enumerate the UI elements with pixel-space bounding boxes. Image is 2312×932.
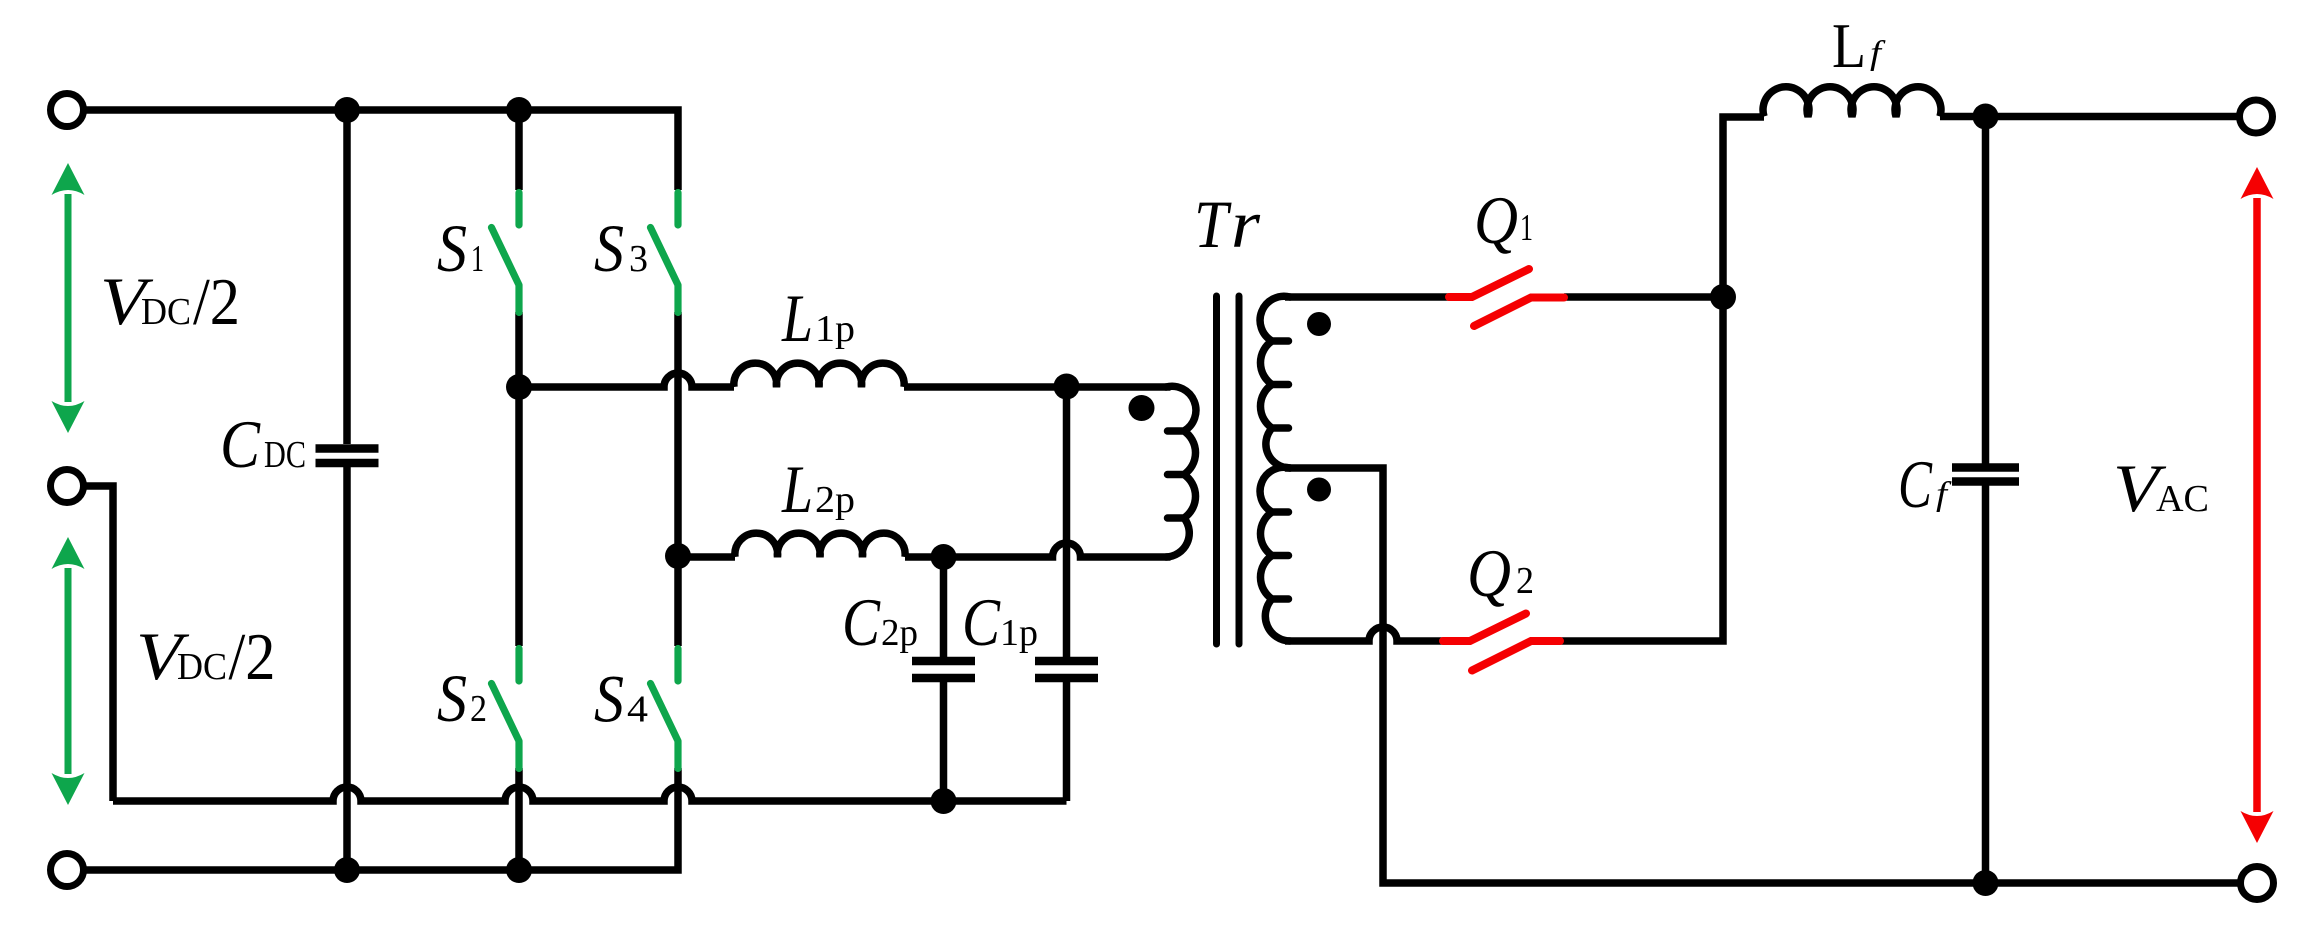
wire Lf to AC+ terminal bbox=[1940, 113, 2240, 121]
terminal DC- bbox=[51, 854, 84, 887]
wire top DC+ rail bbox=[80, 110, 678, 190]
svg-text:S: S bbox=[437, 210, 467, 286]
transformer Tr primary winding bbox=[1166, 386, 1196, 557]
svg-text:f: f bbox=[1936, 476, 1952, 513]
capacitor C1p top lead bbox=[1063, 387, 1071, 658]
wire DC midpoint link bbox=[80, 486, 113, 801]
label S2 bbox=[437, 660, 487, 736]
inductor Lf bbox=[1763, 87, 1941, 117]
transformer Tr secondary winding 2 bbox=[1260, 467, 1290, 641]
transformer Tr core bars bbox=[1217, 296, 1240, 644]
svg-text:2: 2 bbox=[1516, 560, 1534, 602]
svg-text:C: C bbox=[842, 584, 881, 660]
svg-text:3: 3 bbox=[629, 238, 648, 280]
svg-text:L: L bbox=[1832, 10, 1866, 81]
svg-text:DC: DC bbox=[177, 646, 227, 688]
transformer polarity dot secondary1 bbox=[1307, 312, 1331, 336]
svg-text:DC: DC bbox=[141, 291, 191, 333]
terminal DC+ bbox=[51, 94, 84, 127]
switch S2 bbox=[492, 649, 520, 769]
capacitor Cf bottom lead bbox=[1982, 486, 1990, 884]
label Tr bbox=[1194, 186, 1261, 262]
inductor L2p bbox=[735, 533, 905, 557]
capacitor C2p bottom lead bbox=[940, 682, 948, 801]
terminal AC- bbox=[2241, 867, 2274, 900]
label Q2 bbox=[1467, 535, 1534, 611]
switch S3 bbox=[651, 193, 679, 313]
svg-text:S: S bbox=[594, 661, 624, 737]
wire secondary2 to Q2 with hop over midtap bbox=[1285, 627, 1443, 641]
wire S1 leg upper bbox=[515, 110, 523, 190]
capacitor C1p bottom lead bbox=[1063, 682, 1071, 801]
label S4 bbox=[594, 661, 648, 737]
wire S3 leg lower to node B bbox=[674, 312, 682, 556]
capacitor C2p plates bbox=[912, 661, 975, 678]
label Lf bbox=[1832, 10, 1886, 81]
label S3 bbox=[594, 210, 648, 286]
wire Q2 to right riser bbox=[1560, 297, 1723, 641]
capacitor CDC plates bbox=[316, 449, 379, 464]
label VDC/2 bottom bbox=[136, 618, 276, 694]
capacitor CDC top lead bbox=[343, 110, 351, 444]
arrow VDC/2 top green bbox=[52, 163, 85, 433]
svg-text:1: 1 bbox=[1520, 207, 1533, 249]
capacitor C2p top lead bbox=[940, 557, 948, 658]
wire S2 leg upper bbox=[515, 387, 523, 646]
inductor L1p bbox=[734, 363, 904, 387]
svg-text:AC: AC bbox=[2156, 478, 2209, 520]
svg-text:4: 4 bbox=[627, 689, 648, 731]
label L2p bbox=[781, 451, 855, 527]
capacitor Cf plates bbox=[1952, 468, 2019, 482]
transformer polarity dot primary bbox=[1129, 395, 1155, 421]
switch Q1 blades bbox=[1449, 269, 1564, 326]
svg-text:S: S bbox=[437, 660, 467, 736]
svg-text:C: C bbox=[962, 584, 1001, 660]
wire node A to L1p with hop over S3 leg bbox=[519, 373, 734, 387]
label VAC bbox=[2113, 450, 2209, 526]
svg-text:1: 1 bbox=[471, 238, 484, 280]
label S1 bbox=[437, 210, 484, 286]
wire node C up to Lf bbox=[1723, 117, 1764, 297]
svg-text:T: T bbox=[1194, 186, 1232, 262]
switch Q2 blades bbox=[1443, 614, 1560, 671]
svg-text:C: C bbox=[1898, 446, 1932, 522]
switch S1 bbox=[492, 193, 520, 313]
svg-text:2p: 2p bbox=[881, 612, 918, 654]
capacitor Cf top lead bbox=[1982, 117, 1990, 464]
wire L1p to primary top bbox=[904, 383, 1171, 391]
label Q1 bbox=[1474, 182, 1533, 258]
svg-text:/2: /2 bbox=[229, 620, 276, 694]
wire bottom-left DC- rail bbox=[80, 768, 678, 870]
svg-text:L: L bbox=[781, 280, 813, 356]
svg-text:/2: /2 bbox=[193, 265, 240, 339]
wire S1 leg lower to node A bbox=[515, 312, 523, 387]
svg-text:DC: DC bbox=[264, 434, 306, 476]
capacitor CDC bottom lead bbox=[343, 467, 351, 870]
capacitor C1p plates bbox=[1035, 661, 1098, 678]
label Cf bbox=[1898, 446, 1952, 522]
label C2p bbox=[842, 584, 918, 660]
wire secondary midtap down to AC return bbox=[1285, 468, 2240, 883]
terminal DC mid bbox=[51, 470, 84, 503]
svg-text:L: L bbox=[781, 451, 813, 527]
svg-text:Q: Q bbox=[1467, 535, 1511, 611]
svg-text:r: r bbox=[1231, 186, 1261, 262]
label C1p bbox=[962, 584, 1038, 660]
label CDC bbox=[220, 406, 306, 482]
svg-text:S: S bbox=[594, 210, 624, 286]
wire S2 leg lower bbox=[515, 768, 523, 870]
svg-text:C: C bbox=[220, 406, 261, 482]
label L1p bbox=[781, 280, 855, 356]
wire S4 leg upper bbox=[674, 556, 682, 646]
svg-text:1p: 1p bbox=[815, 308, 855, 350]
junction dots bbox=[334, 97, 360, 123]
wire secondary1 to Q1 bbox=[1285, 293, 1449, 301]
svg-text:2p: 2p bbox=[815, 479, 855, 521]
wire L2p to primary bottom with hop over C1p bbox=[905, 543, 1171, 557]
wire Q1 to node C bbox=[1564, 293, 1723, 301]
wire mid return rail with hops over CDC S2 S4 bbox=[113, 787, 1067, 801]
transformer Tr secondary winding 1 bbox=[1260, 296, 1290, 468]
transformer polarity dot secondary2 bbox=[1307, 478, 1331, 502]
svg-text:f: f bbox=[1870, 35, 1886, 72]
svg-text:Q: Q bbox=[1474, 182, 1518, 258]
wire node B to L2p bbox=[678, 553, 735, 561]
terminal AC+ bbox=[2240, 100, 2273, 133]
arrow VDC/2 bottom green bbox=[52, 537, 85, 805]
label VDC/2 top bbox=[100, 263, 240, 339]
svg-text:1p: 1p bbox=[1000, 612, 1038, 654]
svg-text:2: 2 bbox=[470, 688, 487, 730]
arrow VAC red bbox=[2241, 167, 2274, 843]
switch S4 bbox=[651, 649, 679, 769]
